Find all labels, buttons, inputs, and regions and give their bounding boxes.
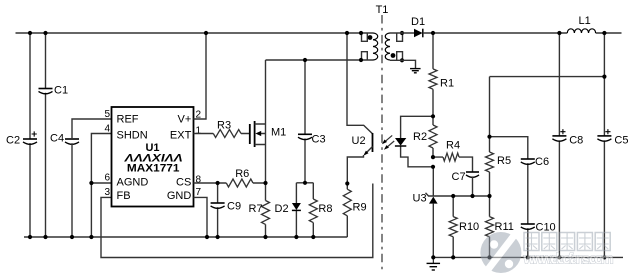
node LED cathode/zener	[431, 165, 435, 169]
svg-text:AGND: AGND	[117, 176, 149, 188]
svg-text:C7: C7	[452, 171, 466, 183]
watermark elecfans	[480, 232, 613, 273]
svg-text:MAX1771: MAX1771	[127, 162, 180, 174]
wire C7 bottom	[472, 176, 474, 196]
svg-text:R2: R2	[413, 131, 427, 143]
svg-text:C5: C5	[614, 135, 628, 147]
wire LED branch	[401, 116, 433, 167]
svg-text:1: 1	[196, 125, 202, 136]
node R11 ground	[487, 255, 491, 259]
wire SHDN/AGND ground	[91, 134, 111, 238]
wire C5 branch	[603, 33, 605, 257]
node output sense tap	[602, 75, 606, 79]
wire C1 branch upper	[45, 33, 47, 89]
op-amp U1 MAX1771	[112, 107, 194, 207]
node R10 top	[451, 194, 455, 198]
node C1 ground	[43, 235, 47, 239]
T1 secondary bottom hook	[397, 52, 403, 61]
wire D2 branch	[295, 183, 297, 237]
svg-text:C10: C10	[536, 222, 556, 234]
svg-text:FB: FB	[117, 190, 131, 202]
wire C1 branch lower	[45, 93, 47, 237]
zener U3	[413, 193, 438, 205]
wire R9 branch	[346, 184, 348, 238]
svg-text:GND: GND	[167, 190, 192, 202]
node R10 ground	[451, 255, 455, 259]
svg-text:R6: R6	[235, 168, 249, 180]
wire D2-R8 link	[296, 182, 313, 184]
T1 secondary top hook	[397, 33, 403, 41]
svg-text:L1: L1	[579, 15, 591, 27]
wire R5 branch	[489, 77, 491, 196]
wire V+ pin2	[194, 33, 207, 119]
wire zener node	[426, 193, 490, 196]
svg-text:R7: R7	[249, 203, 263, 215]
node R5/R11	[487, 194, 491, 198]
svg-text:C8: C8	[569, 135, 583, 147]
svg-text:T1: T1	[376, 4, 389, 16]
svg-text:4: 4	[104, 124, 110, 135]
node C1/input rail	[43, 31, 47, 35]
isolation barrier	[381, 15, 383, 272]
T1 primary phase dot	[368, 35, 373, 40]
diode D1	[411, 16, 425, 37]
svg-text:R9: R9	[353, 202, 367, 214]
wire C3 branch	[304, 60, 306, 183]
svg-text:D2: D2	[275, 203, 289, 215]
node R5/C6 top	[487, 135, 491, 139]
node U3 anode ground	[431, 255, 435, 259]
optocoupler LED	[395, 138, 406, 146]
svg-text:D1: D1	[411, 16, 425, 28]
node C8 ground	[557, 255, 561, 259]
wire bottom input rail	[24, 236, 347, 238]
capacitor C2	[6, 131, 37, 146]
svg-text:R3: R3	[217, 120, 231, 132]
wire M1 drain up	[265, 60, 267, 124]
transistor M1	[250, 121, 286, 147]
node C8/output	[557, 31, 561, 35]
node C3 top	[303, 58, 307, 62]
wire R11 branch	[489, 196, 491, 257]
wire R2 to zener	[432, 167, 434, 196]
ground output	[427, 257, 441, 270]
capacitor C7	[452, 171, 480, 183]
wire U2 collector	[347, 33, 373, 134]
svg-text:R8: R8	[318, 203, 332, 215]
capacitor C1	[39, 85, 69, 97]
svg-text:C2: C2	[6, 135, 20, 147]
transistor U2 phototransistor	[352, 133, 373, 156]
node R8 ground	[311, 235, 315, 239]
svg-text:8: 8	[196, 175, 202, 186]
node R7 ground	[263, 235, 267, 239]
wire R4 leads	[433, 157, 473, 172]
resistor R6	[226, 168, 253, 187]
wire secondary bottom to ground	[390, 60, 416, 68]
wire C2 branch upper	[29, 33, 31, 139]
svg-text:CS: CS	[176, 176, 191, 188]
wire C8 branch	[558, 33, 560, 257]
node SHDN ground	[89, 235, 93, 239]
node D2 ground	[294, 235, 298, 239]
node U2 emitter/R9/FB	[345, 181, 349, 185]
wire M1 source down	[265, 145, 267, 184]
resistor R10	[449, 217, 479, 237]
resistor R2	[413, 125, 437, 148]
T1 primary bottom hook	[362, 52, 368, 60]
svg-text:R10: R10	[459, 221, 479, 233]
ground secondary	[410, 69, 421, 73]
capacitor C8	[552, 129, 583, 146]
node T1 primary bottom	[359, 58, 363, 62]
node C9 ground	[216, 235, 220, 239]
node C9/CS	[216, 181, 220, 185]
optocoupler light arrows	[382, 135, 394, 149]
resistor R4	[443, 140, 460, 162]
node C5 ground	[602, 255, 606, 259]
wire REF to C4	[72, 119, 112, 237]
svg-text:R11: R11	[495, 221, 514, 233]
node C2 ground	[28, 235, 32, 239]
resistor R7	[249, 201, 270, 225]
T1 primary top hook	[362, 33, 368, 41]
wire FB return	[101, 184, 373, 258]
wire output ground rail	[432, 256, 623, 258]
svg-text:M1: M1	[271, 127, 286, 139]
svg-text:SHDN: SHDN	[117, 129, 148, 141]
capacitor C5	[597, 129, 628, 146]
diode D2	[275, 203, 301, 215]
wire U2 emitter	[347, 155, 363, 184]
node D1 cathode	[431, 31, 435, 35]
node GND pin ground	[205, 235, 209, 239]
node AGND/SHDN	[89, 181, 93, 185]
capacitor C4	[50, 133, 79, 145]
resistor R11	[486, 217, 514, 237]
svg-text:5: 5	[104, 109, 110, 120]
T1 secondary phase dot	[391, 53, 396, 58]
wire sense line	[490, 76, 605, 78]
node R2/R4	[431, 155, 435, 159]
wire secondary top	[390, 32, 414, 34]
wire R1 branch	[432, 33, 434, 116]
capacitor C3	[298, 134, 326, 146]
svg-text:C9: C9	[227, 201, 241, 213]
capacitor C6	[521, 156, 549, 168]
svg-text:C4: C4	[50, 133, 64, 145]
svg-text:U3: U3	[413, 193, 427, 205]
node T1 primary top	[359, 31, 363, 35]
node C7 bottom	[470, 194, 474, 198]
svg-text:C6: C6	[535, 156, 549, 168]
node M1 source/R7/CS	[263, 181, 267, 185]
wire R7 branch	[265, 183, 267, 237]
resistor R3	[213, 120, 241, 138]
svg-text:C1: C1	[54, 85, 68, 97]
resistor R5	[486, 152, 512, 172]
node T1 secondary bottom	[400, 58, 404, 62]
wire EXT pin1	[194, 133, 250, 135]
wire GND pin7	[194, 197, 208, 237]
svg-text:6: 6	[104, 173, 110, 184]
svg-text:R1: R1	[440, 78, 454, 90]
node C10 ground	[526, 255, 530, 259]
wire C6 branch	[490, 137, 528, 258]
wire primary link	[266, 59, 374, 61]
svg-text:3: 3	[104, 187, 110, 198]
resistor R1	[429, 69, 454, 90]
svg-text:C3: C3	[312, 134, 326, 146]
svg-text:V+: V+	[178, 114, 192, 126]
U1 pin numbers	[104, 109, 201, 198]
node V+ tap	[204, 31, 208, 35]
svg-text:R4: R4	[446, 140, 460, 152]
inductor L1	[567, 15, 595, 33]
svg-text:U2: U2	[352, 135, 366, 147]
wire R10 branch	[452, 196, 454, 257]
node C5/output	[602, 31, 606, 35]
capacitor C10	[521, 222, 556, 234]
node T1 secondary top	[400, 31, 404, 35]
wire R8 branch	[312, 183, 314, 237]
node R1/R2/LED	[431, 114, 435, 118]
svg-text:7: 7	[196, 187, 202, 198]
node C2/input rail	[28, 31, 32, 35]
wire CS pin8	[194, 182, 266, 184]
resistor R8	[309, 199, 332, 223]
node C4 ground	[70, 235, 74, 239]
node C3 bottom/D2/R8	[303, 181, 307, 185]
transformer T1 primary winding	[373, 33, 378, 60]
svg-text:www.elecfans.com: www.elecfans.com	[523, 252, 614, 268]
wire zener anode	[432, 204, 434, 258]
wire R2 branch	[432, 116, 434, 157]
wire top input rail	[16, 32, 374, 34]
wire C9 branch	[217, 183, 219, 237]
wire output top	[423, 32, 622, 34]
label T1	[376, 4, 389, 16]
svg-text:REF: REF	[117, 114, 139, 126]
node U2 collector tap	[345, 31, 349, 35]
svg-text:EXT: EXT	[170, 129, 192, 141]
transformer T1 secondary winding	[385, 33, 390, 60]
capacitor C9	[211, 201, 241, 213]
wire C2 branch lower	[29, 143, 31, 237]
svg-text:R5: R5	[497, 155, 511, 167]
resistor R9	[343, 189, 366, 216]
